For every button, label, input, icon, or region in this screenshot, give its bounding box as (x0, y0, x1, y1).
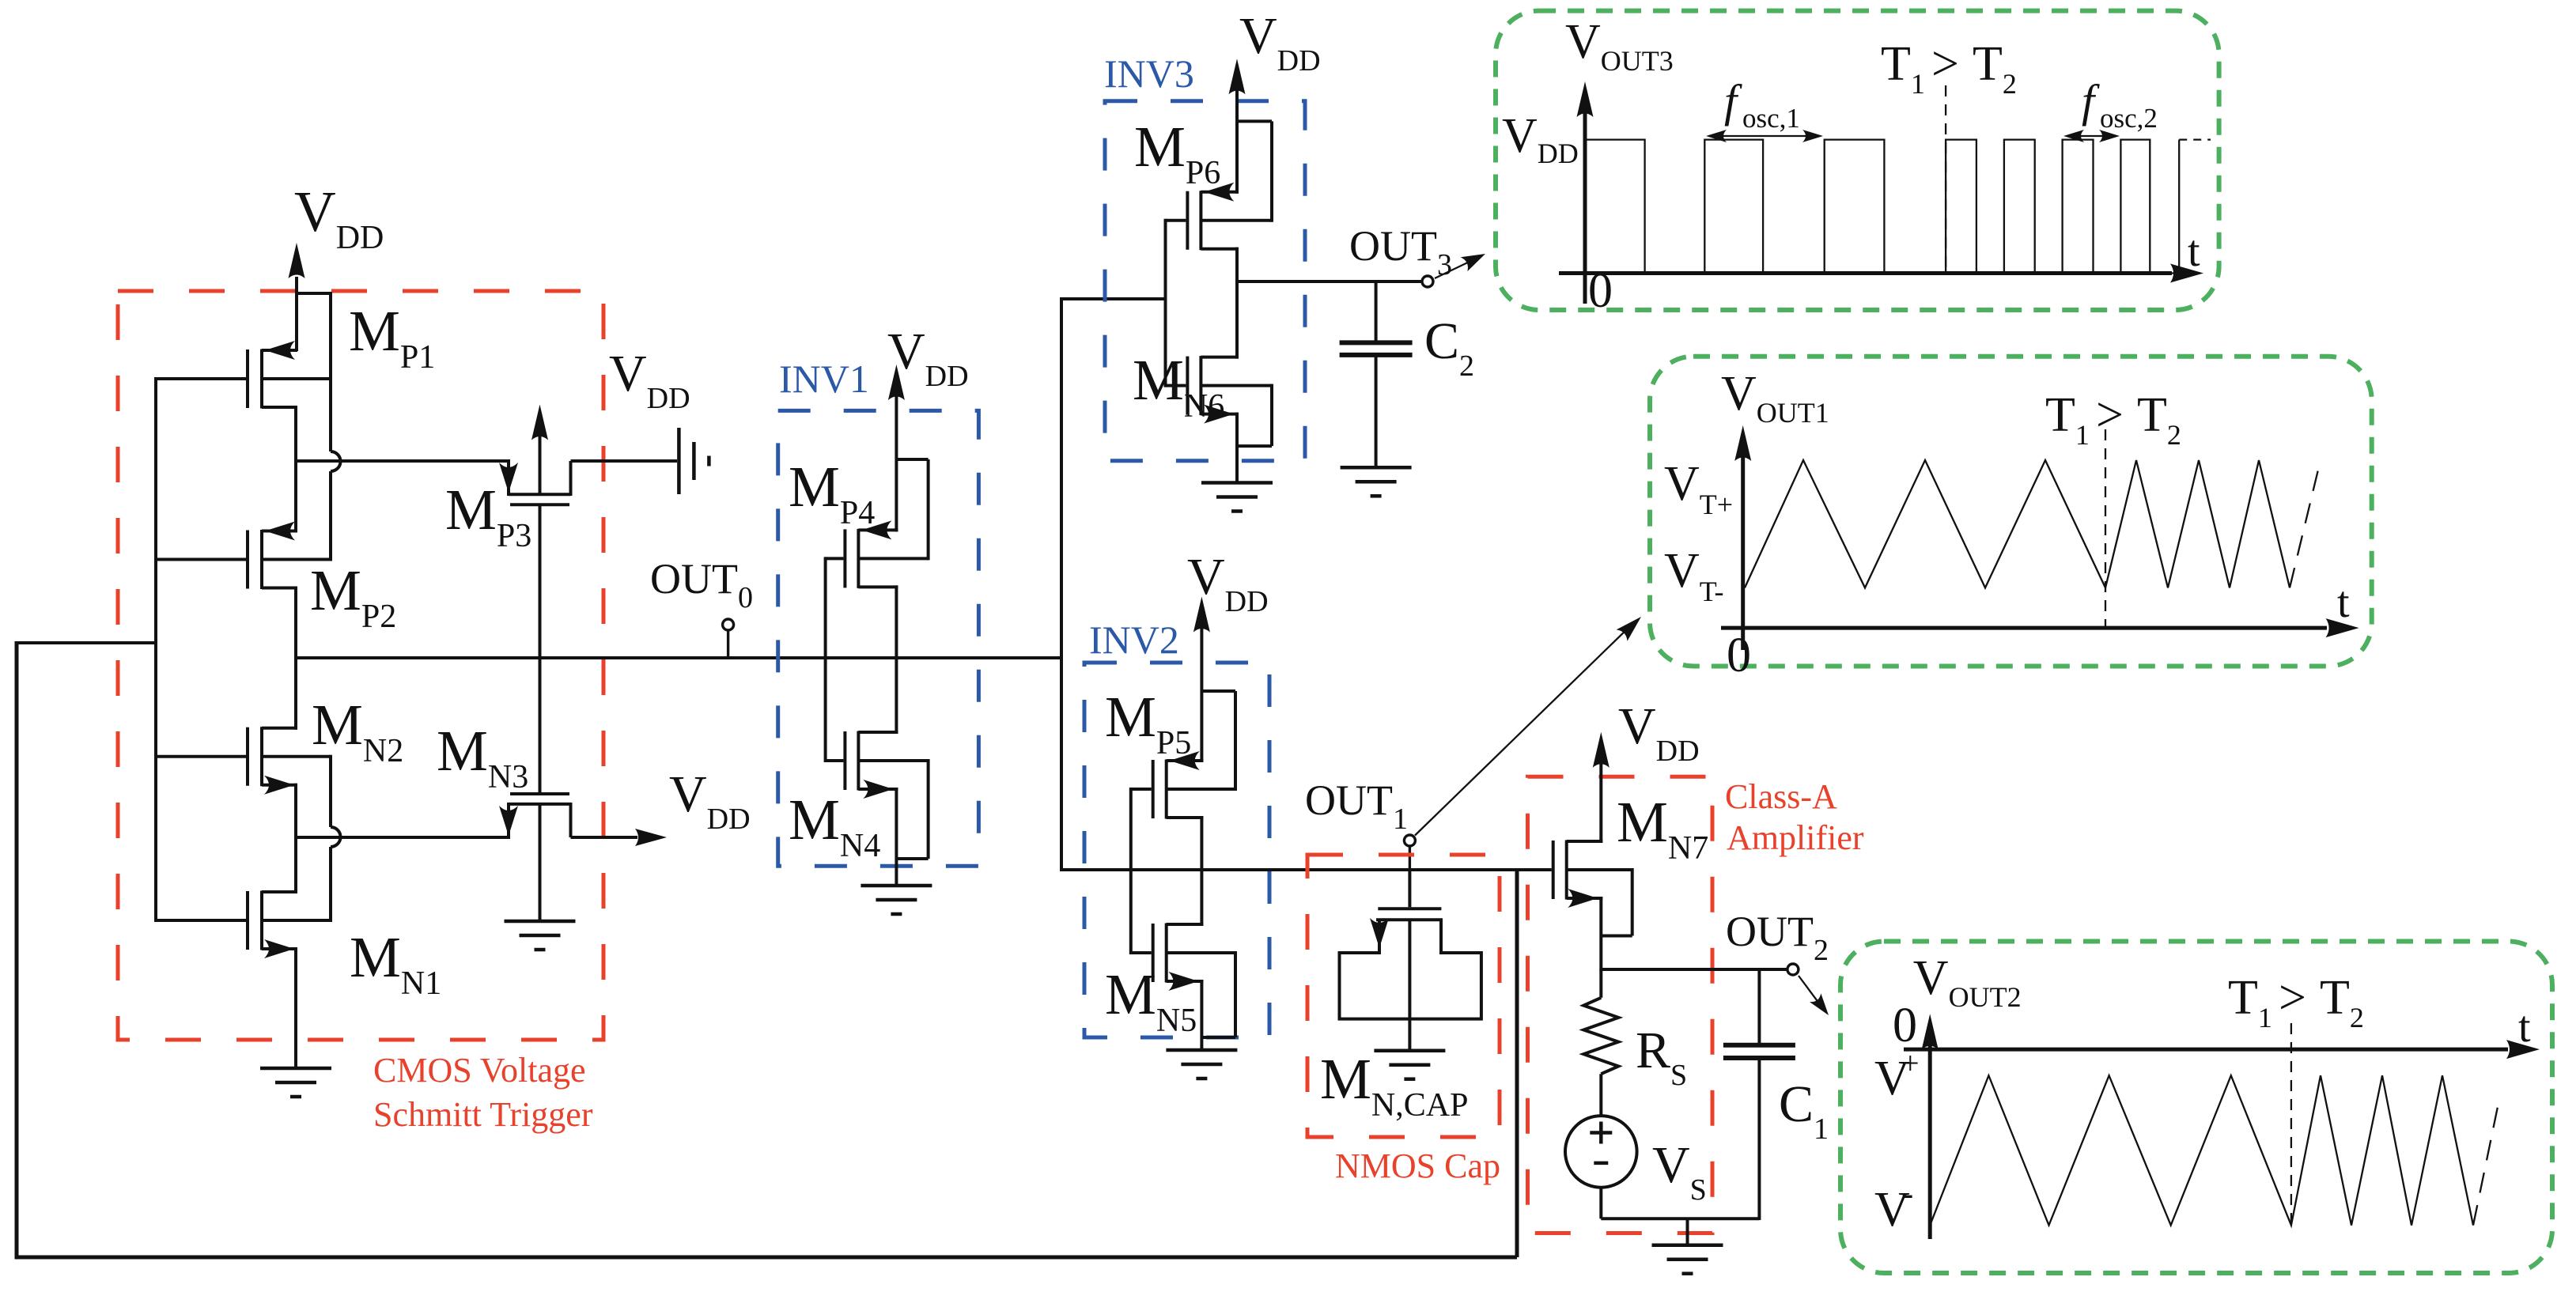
wire MP6 bulk rail to VDD (1270, 121, 1273, 221)
ground (MN1 source) (260, 1067, 331, 1071)
wire MN7 bulk rail to source (1631, 868, 1634, 936)
wire ground stub (class-A) (1686, 1218, 1689, 1245)
arrow OUT3 to waveform panel (1435, 259, 1474, 278)
waveform VOUT2 dashed continuation (2473, 1099, 2499, 1226)
dashed box NMOS Cap (1307, 855, 1500, 1137)
svg-text:>: > (2096, 388, 2124, 442)
node OUT1 terminal (1409, 844, 1411, 871)
dashed panel VOUT1 waveform (1650, 357, 2372, 667)
svg-text:t: t (2518, 1003, 2531, 1052)
dashed panel VOUT2 waveform (1840, 942, 2552, 1274)
wire feedback bottom rail (15, 1256, 1518, 1260)
wire INV2 gate bus (1129, 788, 1133, 954)
ground (INV2) (1166, 1048, 1237, 1052)
svg-text:osc,2: osc,2 (2100, 103, 2158, 134)
wire MN6 bulk rail to source (1270, 384, 1273, 446)
transistor MP5 (1131, 788, 1152, 791)
waveform VOUT2 triangle (1930, 1075, 2473, 1225)
voltage source VS (1565, 1116, 1637, 1188)
wire NMOS bulk rail (MN2/MN1 bulk) (329, 755, 332, 827)
wire feedback left vertical (15, 641, 19, 1260)
wire MN7 source to output node (1599, 897, 1602, 971)
arrow OUT2 to waveform panel (1799, 976, 1821, 1007)
waveform VOUT1 dashed continuation (2290, 467, 2319, 587)
axis VOUT2 x-axis (1904, 1048, 2508, 1052)
wire MP5 drain to MN5 drain (1200, 816, 1203, 926)
axis VOUT1 y-axis (1741, 455, 1745, 650)
axis VOUT3 x-axis (1559, 271, 2172, 275)
wire MN3 bulk to ground (539, 804, 542, 921)
axis VOUT3 y-axis (1583, 111, 1587, 304)
wire MP5 bulk rail to VDD (1234, 691, 1237, 791)
capacitor C2 (1375, 281, 1378, 342)
svg-text:>: > (2279, 971, 2306, 1025)
dashed box INV2 (1084, 663, 1269, 1037)
transistor MP3 (507, 461, 510, 496)
power VDD symbol (INV3) (1235, 89, 1239, 194)
node OUT0 terminal (727, 629, 729, 659)
svg-text:>: > (1931, 37, 1959, 91)
ground (MP3 drain, sideways) (677, 428, 681, 494)
transistor MP6 (1166, 219, 1186, 222)
divider T1/T2 (VOUT2) (2290, 1023, 2292, 1227)
waveform VOUT3 dashed continuation (2179, 138, 2211, 140)
power VDD symbol (INV2) (1200, 625, 1203, 762)
svg-text:INV3: INV3 (1104, 51, 1194, 96)
wire feedback vertical (OUT1 down) (1515, 868, 1519, 1257)
dashed box INV3 (1105, 101, 1305, 461)
transistor MN4 (826, 759, 844, 762)
transistor MN2 (156, 755, 246, 758)
wire class-A bottom (1601, 1217, 1759, 1220)
dashed box Class-A Amplifier (1528, 776, 1713, 1233)
transistor MN1 (156, 919, 246, 922)
transistor MN5 (1131, 951, 1152, 954)
wire INV3 input (1060, 297, 1167, 300)
svg-text:Schmitt Trigger: Schmitt Trigger (373, 1095, 593, 1134)
svg-text:Class-A: Class-A (1725, 777, 1837, 816)
power VDD terminal (MN3 drain, right arrow) (635, 829, 667, 846)
transistor MP2 (156, 558, 246, 561)
wire INV3/INV2 input vertical (1060, 297, 1063, 871)
wire MP4 bulk rail to VDD (927, 459, 930, 560)
svg-text:-: - (1901, 1173, 1913, 1213)
ground (INV1) (861, 884, 932, 888)
ground (INV3) (1201, 481, 1273, 485)
transistor MN3 (539, 658, 542, 792)
dashed panel VOUT3 waveform (1496, 11, 2219, 310)
svg-text:CMOS Voltage: CMOS Voltage (373, 1051, 586, 1090)
axis VOUT1 x-axis (1721, 626, 2327, 630)
wire MN1 source to ground (294, 947, 297, 1068)
power VDD symbol (INV1) (895, 395, 898, 531)
wire PMOS bulk rail (VDD to MP1/MP2 bulk) (297, 292, 331, 295)
svg-text:0: 0 (1893, 999, 1917, 1052)
wire MN1 drain node to MN3 source (294, 836, 510, 839)
wire OUT1 line (INV2 through MN7 gate) (1060, 868, 1552, 871)
node OUT3 terminal (1422, 276, 1433, 287)
divider T1/T2 (VOUT1) (2105, 429, 2106, 628)
svg-text:INV2: INV2 (1089, 618, 1179, 662)
wire input (feedback to gate bus) (17, 641, 157, 644)
transistor MP4 (826, 557, 844, 560)
svg-text:osc,1: osc,1 (1742, 103, 1800, 134)
capacitor C1 (1757, 969, 1761, 1045)
waveform VOUT3 pulses (1585, 140, 2179, 274)
wire MP1 drain node to MP3 source (294, 459, 510, 463)
wire output node to MN2 drain (294, 658, 297, 730)
svg-text:NMOS Cap: NMOS Cap (1335, 1147, 1500, 1185)
wire MP6 drain to MN6 drain (1235, 247, 1239, 359)
wire INV3 gate bus (1164, 219, 1167, 387)
wire MP1 drain to MP2 source (294, 407, 297, 533)
transistor MN,CAP (MOS capacitor) (1408, 870, 1411, 907)
dashed box INV1 (778, 410, 979, 866)
dashed box CMOS Voltage Schmitt Trigger (118, 291, 603, 1040)
wire OUT2 line (1601, 968, 1787, 971)
transistor MN6 (1166, 384, 1186, 387)
power VDD symbol (MN7) (1599, 761, 1602, 843)
node OUT2 terminal (1787, 964, 1799, 975)
wire gate bus (154, 377, 157, 922)
svg-text:0: 0 (1588, 264, 1613, 318)
wire MN2 source to MN1 drain (294, 784, 297, 893)
ground (MN3 bulk) (505, 920, 576, 924)
divider T1/T2 (VOUT3) (1945, 85, 1946, 274)
ground (MN,CAP) (1374, 1048, 1445, 1052)
wire MN4 bulk rail to source (927, 759, 930, 859)
svg-text:0: 0 (1727, 629, 1751, 682)
ground (C2) (1341, 466, 1412, 470)
wire MN4 source to ground (895, 788, 898, 886)
axis VOUT2 y-axis (1928, 1043, 1932, 1239)
wire main OUT0 line (296, 656, 1063, 659)
waveform VOUT1 triangle (1745, 460, 2290, 587)
arrow OUT1 to waveform panel (1415, 625, 1631, 836)
wire MP4 drain to MN4 drain (895, 585, 898, 734)
resistor RS (1599, 969, 1602, 998)
wire MN5 source to ground (1200, 980, 1203, 1050)
svg-text:t: t (2188, 227, 2200, 276)
svg-text:t: t (2337, 578, 2350, 627)
power VDD symbol (Schmitt stack) (295, 277, 298, 351)
ground (class-A) (1652, 1243, 1723, 1247)
power VDD symbol (MP3 bulk) (539, 435, 542, 496)
wire MP2 drain to output node (294, 587, 297, 660)
transistor MP1 (156, 377, 246, 380)
svg-text:INV1: INV1 (779, 357, 869, 401)
svg-text:Amplifier: Amplifier (1727, 818, 1864, 857)
wire INV1 gate bus (824, 557, 827, 762)
transistor MN7 (1552, 841, 1555, 899)
wire MN6 source to ground (1235, 413, 1239, 483)
wire MN5 bulk rail to source (1234, 951, 1237, 1037)
wire OUT3 line (1237, 280, 1422, 283)
